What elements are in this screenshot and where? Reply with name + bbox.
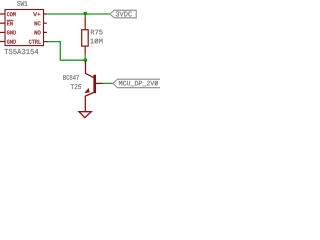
label R75 bbox=[91, 30, 103, 35]
pin name EN with overline bbox=[7, 20, 14, 25]
pin name NO bbox=[35, 31, 41, 35]
pin EN stub bbox=[0, 22, 5, 24]
resistor R75 pin bottom bbox=[84, 46, 86, 55]
transistor base pin bbox=[96, 82, 103, 84]
net flag MCU_DP_2V0 bbox=[113, 79, 168, 88]
pin name COM bbox=[7, 12, 16, 16]
ground symbol bbox=[79, 112, 91, 118]
label SW1 bbox=[17, 1, 27, 6]
wire CTRL to node bbox=[47, 42, 84, 61]
pin GND1 stub bbox=[0, 31, 5, 33]
transistor emitter bbox=[85, 93, 93, 96]
pin name NC bbox=[35, 21, 41, 25]
wire base to MCU flag bbox=[103, 82, 113, 84]
pin NC stub bbox=[44, 22, 47, 24]
pin name GND2 bbox=[7, 40, 16, 44]
junction dot top bbox=[83, 12, 87, 16]
label 10M with slashed zero bbox=[90, 39, 102, 44]
IC SW1 box bbox=[5, 10, 44, 46]
label TS5A3154 bbox=[5, 49, 39, 54]
pin V+ stub bbox=[44, 13, 47, 15]
pin name GND1 bbox=[7, 31, 16, 35]
transistor emitter lead bbox=[84, 96, 86, 112]
pin name CTRL bbox=[29, 40, 41, 44]
transistor emitter arrow bbox=[84, 88, 89, 93]
pin CTRL stub bbox=[44, 41, 48, 43]
resistor R75 pin top bbox=[84, 17, 86, 30]
label BC847 bbox=[63, 75, 79, 80]
pin NO stub bbox=[44, 31, 47, 33]
transistor T25 collector bbox=[86, 61, 94, 78]
resistor R75 body bbox=[82, 30, 89, 46]
pin COM stub bbox=[0, 13, 5, 15]
wire net V+ to 3VDC flag bbox=[46, 14, 110, 18]
label T25 bbox=[71, 84, 81, 89]
pin name V+ bbox=[33, 12, 40, 16]
junction dot node bbox=[84, 58, 88, 64]
transistor base bar bbox=[93, 75, 96, 94]
pin GND2 stub bbox=[0, 41, 5, 43]
wire resistor bottom to node bbox=[84, 54, 86, 60]
net flag 3VDC bbox=[110, 10, 136, 18]
